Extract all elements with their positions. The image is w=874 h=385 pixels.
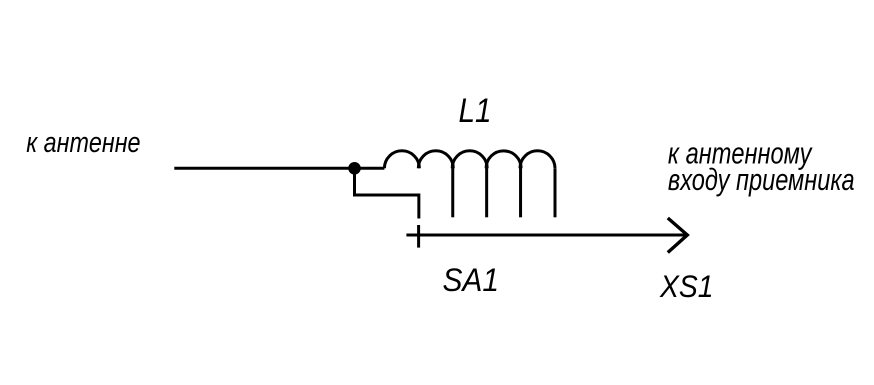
inductor tap legs	[453, 165, 555, 218]
svg-text:к антенне: к антенне	[26, 127, 140, 159]
svg-text:XS1: XS1	[659, 268, 713, 304]
wire: tap from junction down, right, down to switch contact	[355, 168, 419, 218]
arrowhead	[668, 218, 688, 253]
wire: horizontal from antenna to coil	[174, 167, 384, 170]
svg-text:L1: L1	[459, 92, 492, 130]
svg-text:входу приемника: входу приемника	[668, 162, 855, 197]
node junction dot	[348, 162, 361, 175]
inductor L1 coil humps	[384, 151, 555, 169]
wire: switch wiper arm with arrow to XS1	[406, 234, 686, 237]
switch SA1 wiper contact tick	[417, 225, 420, 248]
svg-text:SA1: SA1	[443, 262, 500, 298]
